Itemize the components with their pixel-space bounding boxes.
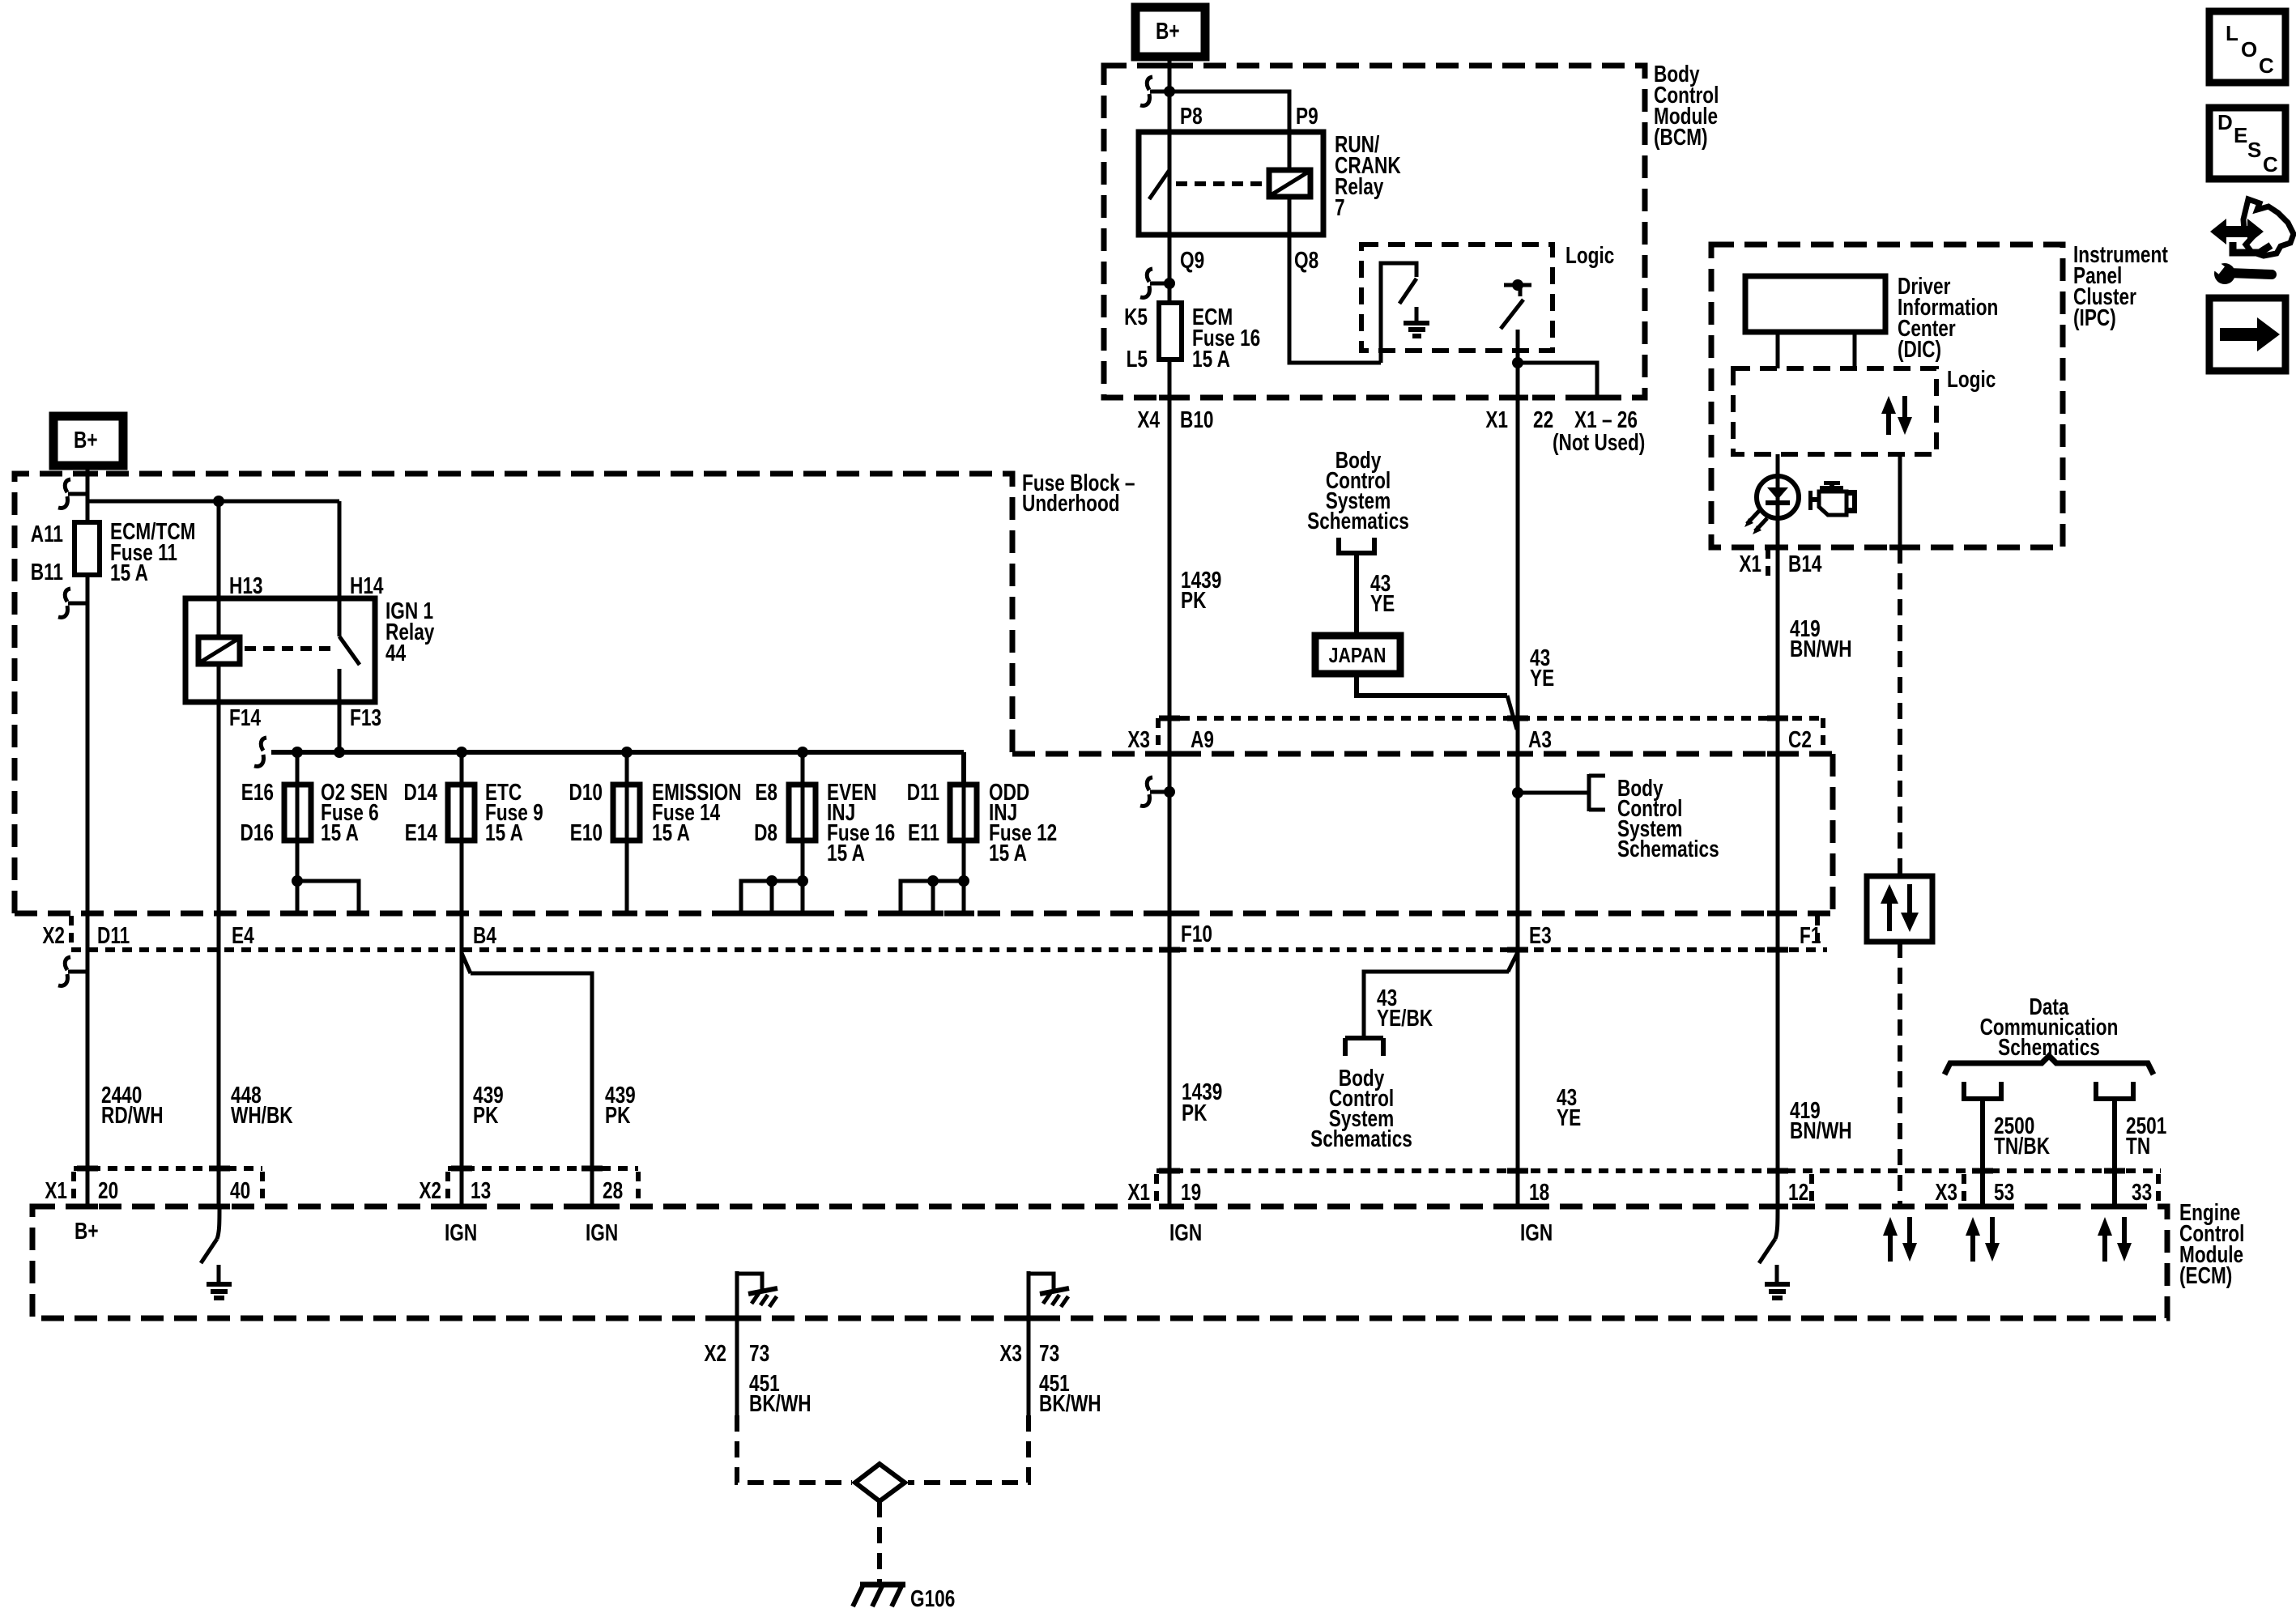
svg-text:Schematics: Schematics bbox=[1307, 507, 1409, 534]
svg-text:IGN: IGN bbox=[445, 1219, 477, 1245]
svg-text:WH/BK: WH/BK bbox=[231, 1101, 293, 1128]
svg-text:Schematics: Schematics bbox=[1310, 1125, 1412, 1151]
svg-text:B4: B4 bbox=[473, 921, 496, 948]
wire O2 fuse output stubs bbox=[296, 840, 300, 913]
wire F14 coil return down to ECM pin 40 bbox=[217, 664, 221, 1206]
relay coil-contact dashed link bbox=[245, 646, 333, 651]
svg-text:O: O bbox=[2241, 37, 2257, 62]
wire Q8 to logic bbox=[1289, 235, 1381, 363]
serial data direction box bbox=[1867, 876, 1932, 942]
label Data Communication Schematics bbox=[1980, 993, 2119, 1060]
svg-text:15 A: 15 A bbox=[110, 559, 148, 585]
label Body Control System Schematics (top) bbox=[1307, 446, 1409, 534]
node O2 fuse tap bbox=[292, 747, 303, 758]
ground G106 bbox=[853, 1585, 955, 1612]
label Body Control Module (BCM) bbox=[1654, 60, 1719, 150]
svg-text:X3: X3 bbox=[999, 1339, 1022, 1366]
check engine icon bbox=[1808, 481, 1857, 515]
svg-text:F14: F14 bbox=[229, 704, 261, 730]
svg-text:YE/BK: YE/BK bbox=[1377, 1004, 1433, 1031]
node P8/P9 junction bbox=[1164, 86, 1175, 97]
svg-text:BN/WH: BN/WH bbox=[1790, 635, 1852, 662]
svg-text:H13: H13 bbox=[229, 572, 262, 598]
inline connector clip (B11 out) bbox=[58, 589, 87, 617]
svg-text:Logic: Logic bbox=[1947, 365, 1996, 392]
brace bbox=[1945, 1056, 2153, 1074]
MIL indicator LED bbox=[1744, 476, 1799, 534]
svg-text:PK: PK bbox=[1182, 1099, 1208, 1126]
relay switch contact (IGN 1) bbox=[339, 636, 360, 702]
wire fuse16 to X4/B10 bbox=[1168, 360, 1172, 754]
ECM internal switch to ground (pin 12) bbox=[1759, 1206, 1790, 1298]
logic switch to ground (left element) bbox=[1381, 263, 1429, 363]
off-page connector fork 2500 bbox=[1962, 1082, 2004, 1099]
wire 2500 TN/BK bbox=[1980, 1099, 1985, 1206]
relay box RUN/CRANK Relay 7 bbox=[1139, 132, 1323, 235]
svg-text:F10: F10 bbox=[1181, 920, 1212, 947]
label Instrument Panel Cluster (IPC) bbox=[2073, 240, 2168, 330]
svg-text:53: 53 bbox=[1994, 1178, 2014, 1205]
wire DIC legs bbox=[1776, 332, 1780, 368]
fuse ODD INJ Fuse 12 15 A bbox=[907, 752, 1057, 866]
svg-text:X1: X1 bbox=[45, 1177, 67, 1203]
svg-text:PK: PK bbox=[605, 1101, 631, 1128]
svg-text:TN/BK: TN/BK bbox=[1994, 1132, 2050, 1159]
svg-text:Logic: Logic bbox=[1565, 241, 1614, 268]
svg-text:C2: C2 bbox=[1788, 726, 1812, 752]
fuse EMISSION Fuse 14 15 A bbox=[569, 752, 742, 846]
svg-text:BN/WH: BN/WH bbox=[1790, 1117, 1852, 1143]
relay coil-contact dashed link bbox=[1176, 181, 1264, 186]
svg-text:B14: B14 bbox=[1788, 550, 1822, 577]
label Body Control System Schematics (bottom) bbox=[1310, 1064, 1412, 1151]
wire EVEN INJ output stubs bbox=[801, 840, 805, 913]
icon LOC box bbox=[2209, 11, 2285, 83]
label RUN/CRANK Relay 7 bbox=[1335, 130, 1401, 220]
wire Q9 to ECM fuse 16 bbox=[1168, 235, 1172, 303]
module box BCM bbox=[1104, 66, 1645, 398]
svg-text:BK/WH: BK/WH bbox=[749, 1389, 811, 1416]
wire ETC fuse output to pin B4 and ECM pin 13 bbox=[460, 840, 464, 1206]
svg-text:D: D bbox=[2217, 110, 2233, 134]
BCM bottom pin ticks bbox=[1159, 395, 1180, 401]
middle module top band (dashed) bbox=[1012, 751, 1833, 757]
module box IPC bbox=[1711, 245, 2063, 547]
svg-text:7: 7 bbox=[1335, 194, 1345, 220]
svg-text:IGN: IGN bbox=[586, 1219, 618, 1245]
svg-text:E16: E16 bbox=[241, 778, 274, 805]
svg-text:15 A: 15 A bbox=[652, 819, 690, 845]
svg-text:H14: H14 bbox=[350, 572, 384, 598]
node F13/bus bbox=[334, 747, 345, 758]
wire JAPAN output spliced to 43 YE bbox=[1357, 674, 1507, 696]
fuse block box outline bbox=[15, 474, 1012, 913]
svg-text:13: 13 bbox=[471, 1177, 491, 1203]
svg-text:X3: X3 bbox=[1935, 1178, 1957, 1205]
svg-text:15 A: 15 A bbox=[827, 839, 865, 866]
inline connector clip (A11 feed) bbox=[58, 479, 87, 508]
svg-text:E3: E3 bbox=[1529, 921, 1552, 948]
svg-text:(ECM): (ECM) bbox=[2179, 1262, 2232, 1288]
svg-text:YE: YE bbox=[1557, 1104, 1581, 1130]
wire 43 YE/BK branch bbox=[1508, 952, 1518, 972]
svg-text:B10: B10 bbox=[1180, 406, 1213, 432]
module box ECM bbox=[32, 1206, 2167, 1318]
svg-text:22: 22 bbox=[1533, 406, 1553, 432]
splice branch to ECM pin 28 bbox=[462, 953, 471, 973]
label Engine Control Module (ECM) bbox=[2179, 1198, 2244, 1288]
svg-text:K5: K5 bbox=[1124, 303, 1148, 330]
svg-text:L5: L5 bbox=[1127, 345, 1148, 372]
svg-text:E8: E8 bbox=[755, 778, 777, 805]
wire to P9 bbox=[1169, 91, 1289, 132]
svg-text:C: C bbox=[2259, 53, 2274, 78]
svg-text:D11: D11 bbox=[97, 921, 130, 948]
svg-text:RD/WH: RD/WH bbox=[101, 1101, 164, 1128]
svg-text:E: E bbox=[2234, 123, 2247, 147]
svg-text:15 A: 15 A bbox=[485, 819, 523, 845]
svg-text:19: 19 bbox=[1181, 1178, 1201, 1205]
svg-text:20: 20 bbox=[98, 1177, 118, 1203]
node EMISSION fuse tap bbox=[621, 747, 633, 758]
svg-text:F13: F13 bbox=[350, 704, 381, 730]
wire ground X2 73 bbox=[735, 1318, 739, 1415]
inline connector clip on Q9 wire bbox=[1140, 269, 1175, 297]
label Fuse Block - Underhood bbox=[1022, 469, 1135, 516]
svg-text:JAPAN: JAPAN bbox=[1329, 644, 1387, 668]
svg-text:A11: A11 bbox=[31, 520, 63, 547]
ECM serial data arrows (pin 12 area) bbox=[1883, 1217, 1917, 1262]
svg-text:18: 18 bbox=[1529, 1178, 1549, 1205]
svg-text:40: 40 bbox=[230, 1177, 250, 1203]
svg-text:X2: X2 bbox=[419, 1177, 441, 1203]
svg-text:E10: E10 bbox=[570, 819, 603, 845]
svg-text:G106: G106 bbox=[910, 1585, 955, 1611]
DIC display block bbox=[1745, 276, 1885, 332]
svg-text:D11: D11 bbox=[907, 778, 939, 805]
splice diamond bbox=[855, 1464, 905, 1501]
svg-text:P8: P8 bbox=[1180, 102, 1203, 129]
svg-text:X1: X1 bbox=[1739, 550, 1761, 577]
wire 43 YE (pin 22 to A3 to ECM 18) bbox=[1516, 398, 1520, 1206]
svg-text:15 A: 15 A bbox=[321, 819, 359, 845]
pin separator X3 (middle module) bbox=[1156, 718, 1161, 754]
wire serial data (IPC logic to ECM, dashed) bbox=[1898, 454, 1902, 547]
ECM internal switch to ground (pin 40) bbox=[201, 1206, 232, 1298]
svg-text:Q8: Q8 bbox=[1294, 246, 1318, 273]
svg-text:Underhood: Underhood bbox=[1022, 489, 1120, 516]
inline connector clip on B+ wire bbox=[1140, 77, 1169, 105]
wire fuse11 down to ECM pin 20 bbox=[86, 575, 90, 1206]
svg-text:(DIC): (DIC) bbox=[1898, 335, 1941, 362]
connector row X1/X3 (ECM right) bbox=[1157, 1168, 2161, 1173]
fuse ECM Fuse 16 15 A bbox=[1124, 303, 1260, 372]
svg-text:TN: TN bbox=[2126, 1132, 2150, 1159]
middle module top row (dotted) bbox=[1163, 716, 1823, 721]
svg-text:D14: D14 bbox=[404, 778, 438, 805]
svg-text:D10: D10 bbox=[569, 778, 603, 805]
wire B+ into fuse block bbox=[86, 466, 90, 522]
svg-text:12: 12 bbox=[1788, 1178, 1808, 1205]
icon hand with wrench bbox=[2209, 199, 2294, 284]
wire F13 to ignition bus bbox=[338, 702, 342, 752]
fuse ECM/TCM Fuse 11 15 A bbox=[31, 517, 196, 585]
svg-text:B+: B+ bbox=[75, 1217, 99, 1244]
inline connector clip on 2440 wire bbox=[58, 957, 87, 985]
ECM serial data arrows (pin 33) bbox=[2098, 1217, 2132, 1262]
label IGN 1 Relay 44 bbox=[386, 597, 435, 666]
serial data arrows (IPC logic) bbox=[1881, 396, 1912, 435]
IPC bottom pin ticks bbox=[1767, 545, 1788, 551]
wire H13 coil feed bbox=[217, 501, 221, 637]
relay switch contact (RUN/CRANK) bbox=[1149, 132, 1169, 235]
pin separator C2 (right) bbox=[1821, 718, 1825, 754]
wire 1439 PK (X4/B10 to ECM 19) bbox=[1168, 754, 1172, 1206]
ECM bottom pin ticks bbox=[726, 1316, 748, 1321]
svg-text:A3: A3 bbox=[1528, 726, 1552, 752]
svg-text:B+: B+ bbox=[1156, 17, 1180, 44]
svg-text:E14: E14 bbox=[405, 819, 438, 845]
wire fuse block bottom band (dashed) bbox=[15, 911, 1833, 917]
svg-text:X1: X1 bbox=[1127, 1178, 1150, 1205]
svg-text:D16: D16 bbox=[241, 819, 274, 845]
label Body Control System Schematics (A3) bbox=[1617, 774, 1719, 862]
svg-text:B+: B+ bbox=[74, 426, 98, 453]
wire logic to MIL lamp bbox=[1776, 454, 1780, 547]
svg-text:(IPC): (IPC) bbox=[2073, 304, 2116, 330]
svg-text:PK: PK bbox=[1181, 586, 1207, 613]
svg-text:X4: X4 bbox=[1137, 406, 1160, 432]
off-page connector to Body Control System Schematics (A3) bbox=[1589, 774, 1605, 811]
icon DESC box bbox=[2209, 108, 2285, 179]
svg-text:C: C bbox=[2263, 152, 2278, 177]
connector row X2 (ECM, pins 13/28) bbox=[448, 1166, 638, 1171]
wire EMISSION fuse output stub bbox=[625, 840, 629, 913]
battery feed symbol B+ (left, feeds fuse block) bbox=[53, 416, 123, 466]
wire ODD INJ output stubs bbox=[962, 840, 966, 913]
ECM serial data arrows (pin 53) bbox=[1966, 1217, 2000, 1262]
node IGN1 relay feed junction bbox=[87, 500, 339, 504]
middle module right edge bbox=[1830, 754, 1836, 913]
off-page connector fork (down) bbox=[1345, 1038, 1383, 1056]
relay coil (IGN 1) bbox=[198, 637, 240, 664]
svg-text:(BCM): (BCM) bbox=[1654, 123, 1708, 150]
pin separator F1 (right) bbox=[1815, 916, 1820, 950]
ignition feed bus bbox=[271, 750, 964, 755]
svg-text:IGN: IGN bbox=[1520, 1219, 1553, 1245]
svg-text:IGN: IGN bbox=[1169, 1219, 1202, 1245]
svg-text:S: S bbox=[2247, 138, 2261, 162]
connector row X1 (ECM left, pins 20/40) bbox=[74, 1166, 262, 1171]
wire B+ into BCM bbox=[1168, 57, 1172, 303]
svg-text:E11: E11 bbox=[908, 819, 939, 845]
relay box IGN 1 Relay 44 bbox=[185, 598, 375, 702]
ECM internal ground clip (X2 73) bbox=[737, 1271, 777, 1318]
node ETC fuse tap bbox=[456, 747, 467, 758]
svg-text:X3: X3 bbox=[1127, 726, 1150, 752]
wire H14 switch feed bbox=[338, 501, 342, 636]
wire 43 YE into JAPAN bbox=[1354, 553, 1359, 636]
svg-text:(Not Used): (Not Used) bbox=[1553, 428, 1645, 455]
svg-text:P9: P9 bbox=[1296, 102, 1318, 129]
svg-text:Schematics: Schematics bbox=[1617, 835, 1719, 862]
logic switch (right element, to pin 22) bbox=[1501, 279, 1531, 363]
svg-text:B11: B11 bbox=[31, 558, 63, 585]
svg-text:33: 33 bbox=[2132, 1178, 2152, 1205]
node 22 / X1-26 branch bbox=[1512, 357, 1523, 368]
pin separator X1 (IPC) bbox=[1766, 549, 1770, 580]
fuse ETC Fuse 9 15 A bbox=[404, 752, 543, 846]
wire 2501 TN bbox=[2112, 1099, 2117, 1206]
svg-text:X2: X2 bbox=[42, 921, 65, 948]
wire to G106 bbox=[877, 1501, 882, 1582]
pin separator X2 (fuse block) bbox=[69, 916, 74, 950]
svg-text:X1: X1 bbox=[1485, 406, 1508, 432]
relay coil (RUN/CRANK) bbox=[1269, 132, 1310, 235]
logic box (BCM) bbox=[1361, 245, 1553, 351]
svg-text:44: 44 bbox=[386, 639, 407, 666]
battery feed symbol B+ (top, feeds BCM) bbox=[1135, 7, 1205, 57]
wire 419 BN/WH (B14 to ECM 12) bbox=[1776, 547, 1780, 1206]
svg-text:D8: D8 bbox=[754, 819, 777, 845]
fuse EVEN INJ Fuse 16 15 A bbox=[754, 752, 895, 866]
svg-text:L: L bbox=[2226, 21, 2238, 45]
connector row bottom (dotted) bbox=[71, 947, 1827, 952]
svg-text:YE: YE bbox=[1370, 589, 1395, 616]
node A3 body control branch bbox=[1512, 787, 1523, 798]
node EVEN INJ fuse tap bbox=[797, 747, 808, 758]
svg-text:15 A: 15 A bbox=[1192, 345, 1230, 372]
label Driver Information Center (DIC) bbox=[1898, 272, 1998, 362]
wire pin ticks at ECM rows bbox=[77, 1166, 98, 1172]
JAPAN option box bbox=[1315, 636, 1400, 674]
svg-text:15 A: 15 A bbox=[989, 839, 1027, 866]
inline connector clip on A9 wire bbox=[1140, 777, 1175, 806]
svg-text:Q9: Q9 bbox=[1180, 246, 1204, 273]
inline connector clip at bus left end bbox=[254, 738, 266, 766]
svg-text:28: 28 bbox=[603, 1177, 623, 1203]
svg-text:73: 73 bbox=[749, 1339, 769, 1366]
off-page connector fork 2501 bbox=[2094, 1082, 2136, 1099]
icon arrow box bbox=[2209, 298, 2285, 371]
svg-text:BK/WH: BK/WH bbox=[1039, 1389, 1101, 1416]
svg-text:PK: PK bbox=[473, 1101, 499, 1128]
svg-text:X2: X2 bbox=[704, 1339, 726, 1366]
ECM internal ground clip (X3 73) bbox=[1029, 1271, 1069, 1318]
svg-text:E4: E4 bbox=[232, 921, 254, 948]
off-page connector fork (top) bbox=[1336, 538, 1377, 553]
svg-text:73: 73 bbox=[1039, 1339, 1059, 1366]
logic box (IPC) bbox=[1733, 368, 1936, 454]
wire ground X3 73 bbox=[1027, 1318, 1031, 1415]
svg-text:YE: YE bbox=[1530, 664, 1554, 691]
svg-text:A9: A9 bbox=[1191, 726, 1214, 752]
fuse O2 SEN Fuse 6 15 A bbox=[241, 752, 388, 846]
